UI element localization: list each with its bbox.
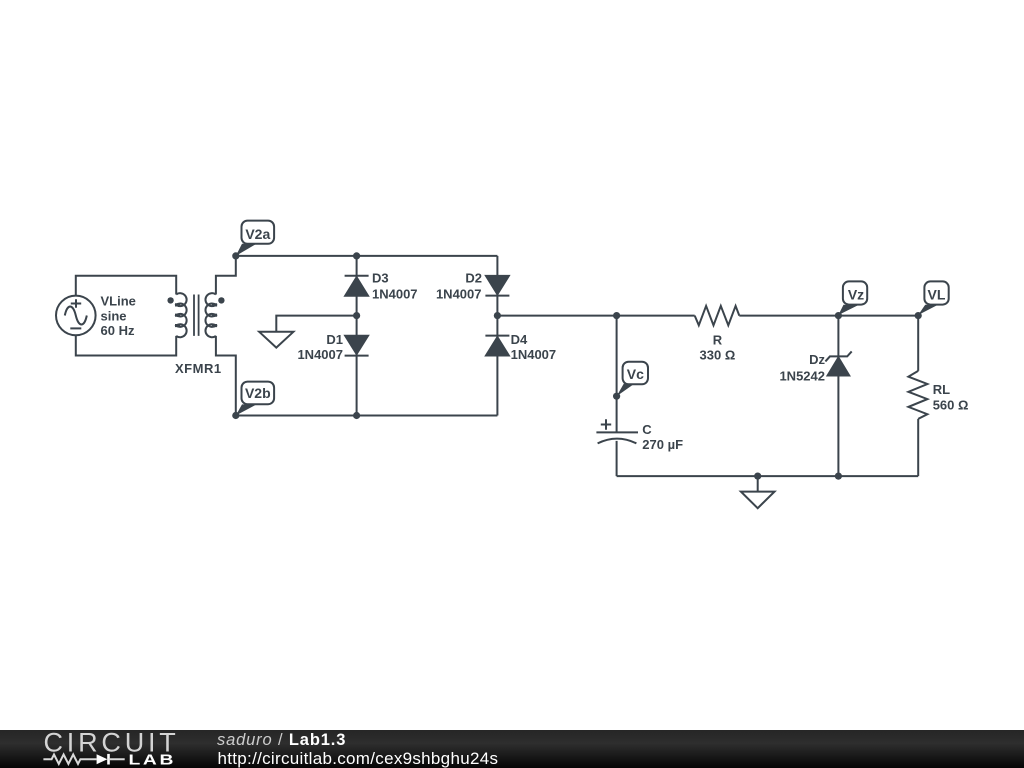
label Dz 1N5242 — [779, 352, 825, 384]
svg-text:Vz: Vz — [848, 286, 864, 302]
voltage source VLine — [56, 296, 96, 336]
svg-text:V2a: V2a — [245, 226, 270, 242]
svg-text:D3: D3 — [372, 270, 389, 285]
node V2b flag — [232, 382, 274, 420]
label C 270 uF — [642, 422, 683, 452]
svg-text:D2: D2 — [465, 270, 482, 285]
node Vz flag — [835, 281, 867, 319]
label R 330 ohm — [700, 332, 736, 362]
svg-text:560 Ω: 560 Ω — [933, 398, 969, 413]
ground symbol right — [741, 476, 775, 508]
svg-text:VL: VL — [928, 286, 946, 302]
svg-text:1N4007: 1N4007 — [511, 347, 557, 362]
svg-text:1N4007: 1N4007 — [372, 286, 418, 301]
junction bottom left — [353, 412, 360, 419]
zener diode Dz — [825, 351, 851, 375]
transformer XFMR1 — [167, 293, 224, 337]
junction mid right — [494, 312, 501, 319]
label RL 560 ohm — [933, 382, 969, 413]
wire right bridge branch — [496, 256, 498, 416]
svg-text:330 Ω: 330 Ω — [700, 347, 736, 362]
svg-text:RL: RL — [933, 382, 950, 397]
capacitor C — [596, 419, 638, 443]
svg-text:http://circuitlab.com/cex9shbg: http://circuitlab.com/cex9shbghu24s — [218, 749, 499, 768]
svg-text:1N4007: 1N4007 — [436, 286, 482, 301]
wire left bridge branch — [356, 256, 358, 416]
logo resistor-diode glyph — [43, 754, 124, 765]
svg-text:XFMR1: XFMR1 — [175, 361, 222, 376]
diode D4 — [485, 336, 509, 356]
wire RL bottom — [917, 419, 919, 476]
wire zener branch — [837, 316, 839, 477]
resistor RL — [908, 371, 927, 419]
node Vc dot — [613, 393, 620, 400]
svg-text:sine: sine — [101, 308, 127, 323]
node VL flag — [915, 281, 949, 319]
svg-text:R: R — [713, 332, 723, 347]
footer bar — [0, 730, 1024, 768]
svg-text:D4: D4 — [511, 332, 528, 347]
label D3 1N4007 — [372, 270, 418, 301]
wire ground rail — [617, 475, 919, 477]
footer title — [217, 731, 498, 768]
wire top rail — [236, 255, 498, 257]
junction cap node — [613, 312, 620, 319]
value label VLine sine 60 Hz — [101, 294, 136, 338]
svg-text:1N5242: 1N5242 — [779, 369, 825, 384]
wire secondary bottom to node V2b — [216, 336, 236, 416]
node V2a flag — [232, 221, 274, 260]
svg-text:saduro / Lab1.3: saduro / Lab1.3 — [217, 731, 346, 749]
resistor R — [695, 306, 740, 325]
svg-text:Vc: Vc — [627, 366, 644, 382]
wire source top to primary top — [76, 276, 176, 296]
node Vc flag — [617, 362, 648, 397]
svg-text:VLine: VLine — [101, 294, 136, 309]
wire bottom rail — [236, 415, 498, 417]
svg-text:C: C — [642, 422, 652, 437]
wire cap to ground rail — [616, 441, 618, 476]
label D1 1N4007 — [297, 332, 343, 362]
wire secondary top to node V2a — [216, 256, 236, 295]
wire ground spur — [276, 316, 356, 332]
svg-text:LAB: LAB — [128, 752, 176, 768]
CircuitLab logo wordmark — [44, 728, 180, 768]
wire cap branch — [616, 316, 618, 433]
junction mid left — [353, 312, 360, 319]
svg-text:1N4007: 1N4007 — [297, 347, 343, 362]
label D4 1N4007 — [511, 332, 557, 362]
svg-text:V2b: V2b — [245, 385, 271, 401]
diode D3 — [345, 276, 369, 296]
wire RL top — [917, 316, 919, 371]
diode D1 — [345, 336, 369, 356]
svg-text:60 Hz: 60 Hz — [101, 323, 135, 338]
diode D2 — [485, 276, 509, 296]
svg-text:270 µF: 270 µF — [642, 437, 683, 452]
junction zener bottom — [835, 473, 842, 480]
wire mid rail right of R — [739, 315, 918, 317]
wire source bottom to primary bottom — [76, 335, 176, 355]
svg-text:Dz: Dz — [809, 352, 825, 367]
junction ground node — [754, 473, 761, 480]
junction top left — [353, 252, 360, 259]
label D2 1N4007 — [436, 270, 482, 301]
svg-text:D1: D1 — [326, 332, 343, 347]
wire mid rail left of R — [497, 315, 694, 317]
ground symbol left — [259, 332, 293, 348]
